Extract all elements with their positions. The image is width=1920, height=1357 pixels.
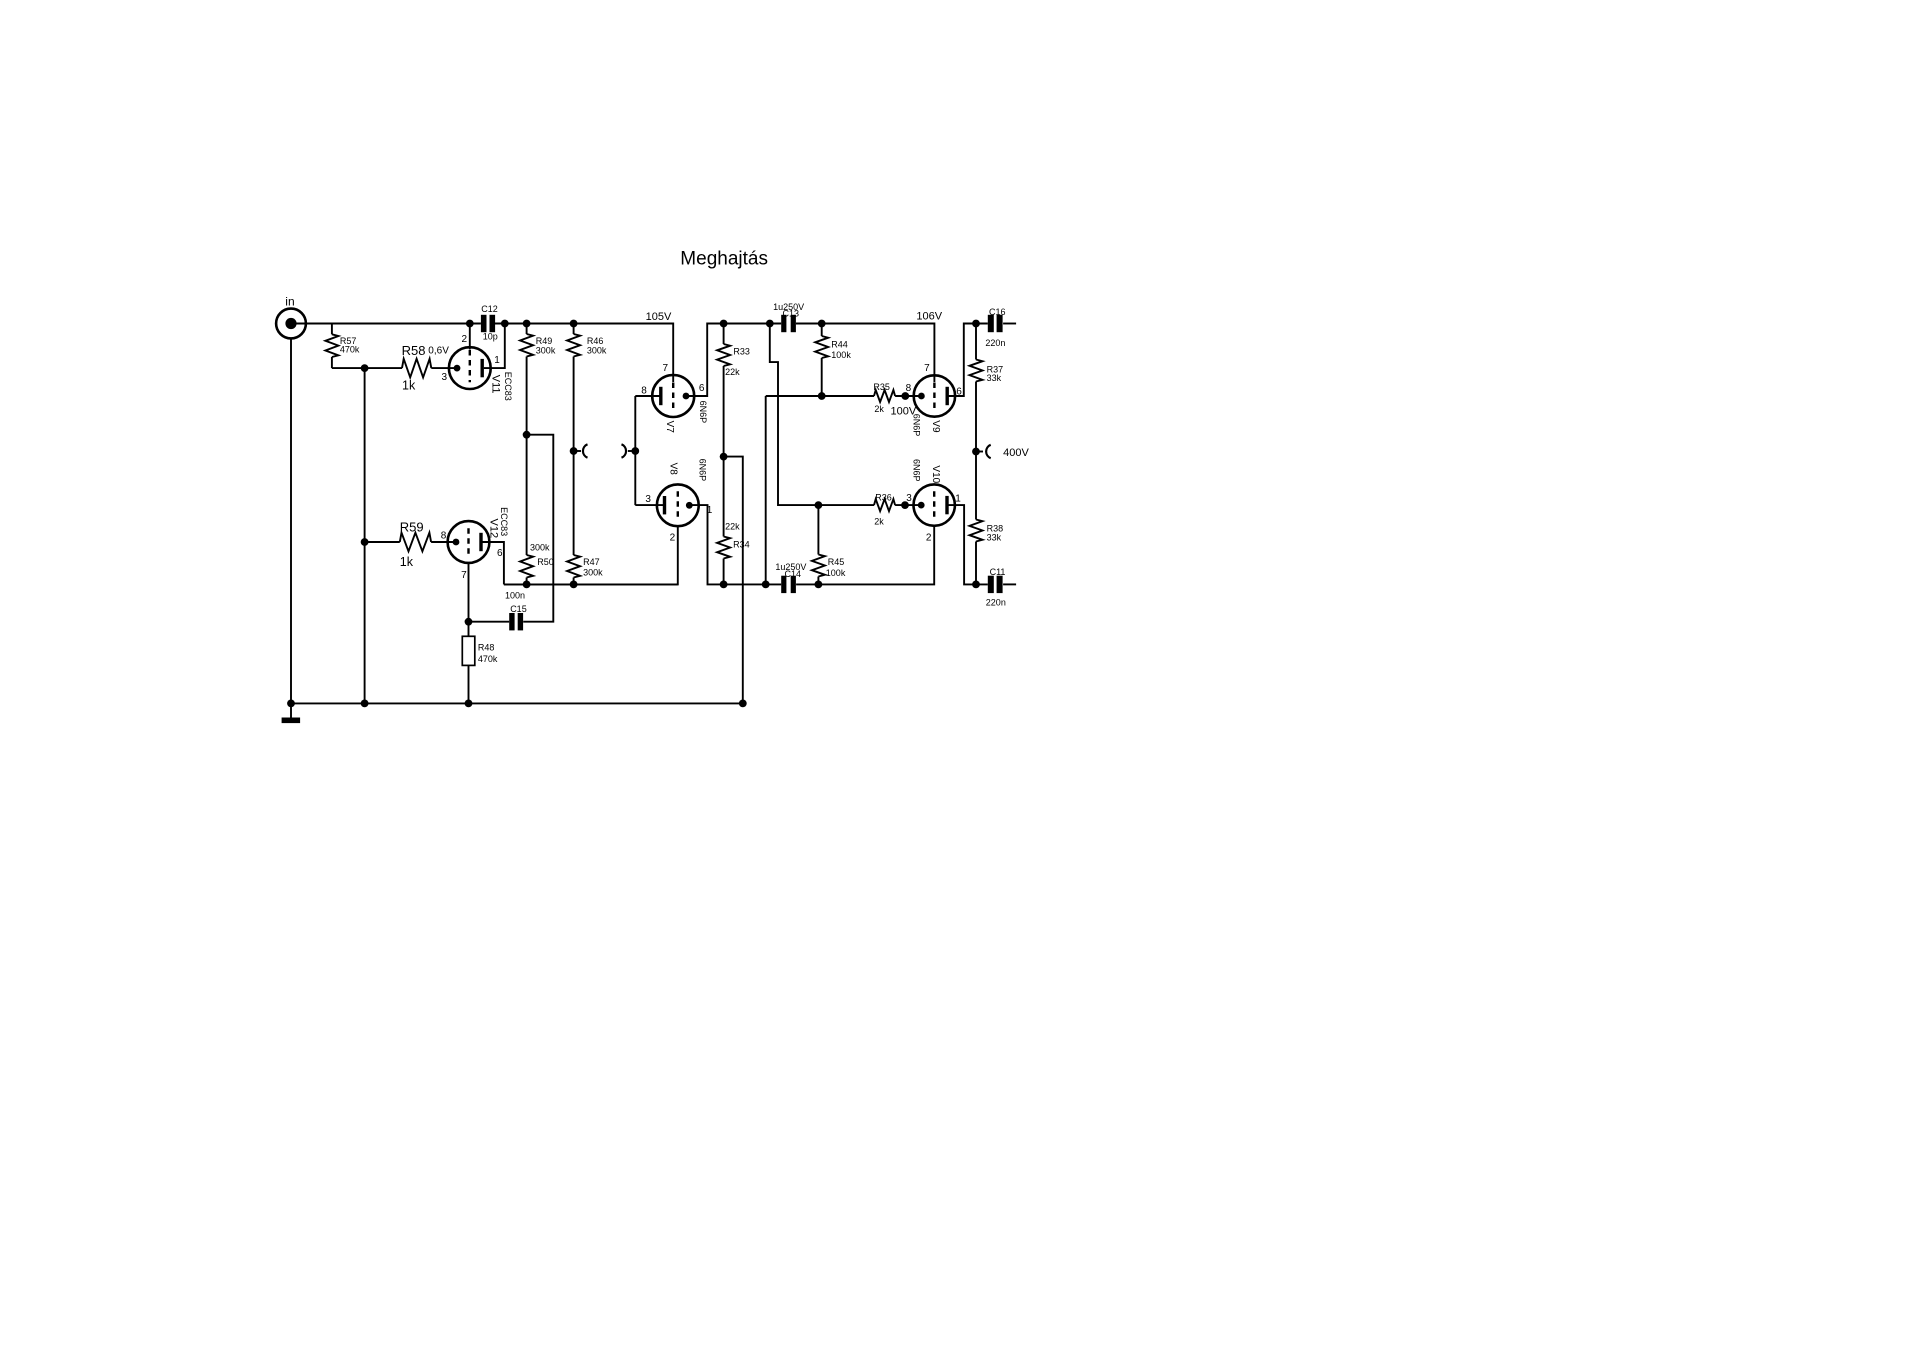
svg-text:3: 3	[442, 372, 448, 383]
wire R57 bottom to R58	[332, 367, 402, 369]
wire C12 right to 105V corner and V7 pin 7	[495, 324, 673, 383]
svg-text:100k: 100k	[831, 350, 851, 360]
svg-text:R45: R45	[828, 557, 845, 567]
svg-text:R35: R35	[873, 382, 890, 392]
svg-text:Meghajtás: Meghajtás	[680, 248, 768, 269]
capacitor C11 220n	[988, 576, 994, 593]
svg-text:6: 6	[956, 387, 962, 398]
svg-text:0,6V: 0,6V	[428, 346, 449, 357]
svg-text:300k: 300k	[587, 345, 607, 355]
wire C13 right to 106V corner and V9 pin 7	[796, 324, 935, 383]
svg-text:105V: 105V	[646, 311, 672, 323]
svg-text:8: 8	[906, 383, 912, 394]
node R47 bottom	[570, 581, 578, 589]
svg-text:6: 6	[497, 548, 503, 559]
wire C15 branch	[523, 435, 553, 622]
svg-text:C12: C12	[481, 304, 498, 314]
svg-text:1k: 1k	[400, 555, 414, 569]
node R46 top	[570, 320, 578, 328]
node net-A top (C13 left)	[766, 320, 774, 328]
node ground rail left	[287, 700, 295, 708]
wire input down to ground	[290, 338, 292, 703]
wire bottom left run	[504, 583, 678, 585]
heater tap node left	[570, 447, 578, 455]
triode V9 6N6P upper right	[914, 375, 955, 416]
svg-text:10p: 10p	[483, 332, 498, 342]
wire R37 to 400V node	[975, 382, 977, 452]
resistor R38 33k	[970, 520, 983, 542]
svg-text:22k: 22k	[725, 367, 740, 377]
resistor R49 300k	[526, 324, 528, 335]
wire V12 pin 7 down to R48	[468, 563, 470, 636]
node net-B bottom	[762, 581, 770, 589]
wire 400V to R38	[975, 452, 977, 520]
svg-text:2: 2	[462, 334, 468, 345]
resistor R46 300k	[573, 324, 575, 335]
resistor R37 33k	[975, 324, 977, 360]
node V10 pin 3	[901, 501, 909, 509]
wire V8 pin 2 down-left to bottom wire	[504, 526, 678, 584]
svg-text:100k: 100k	[826, 568, 846, 578]
node V9 pin 8	[901, 392, 909, 400]
svg-text:100n: 100n	[505, 591, 525, 601]
capacitor C16 220n	[988, 315, 994, 332]
heater tap node right	[631, 447, 639, 455]
wire input to C12	[291, 323, 481, 325]
svg-text:C16: C16	[989, 307, 1006, 317]
triode V12 ECC83	[448, 521, 490, 563]
svg-text:V10: V10	[930, 465, 941, 483]
wire V9 pin 6 riser to C16	[947, 324, 988, 397]
wire junction to ground rail	[724, 457, 743, 704]
node ground rail right corner	[739, 700, 747, 708]
wire junction to R59	[365, 541, 400, 543]
svg-text:3: 3	[906, 493, 912, 504]
wire C15 left to pin7 line	[469, 621, 510, 623]
wire R36 row	[818, 504, 874, 506]
node R59 junction	[361, 538, 369, 546]
resistor R34 22k	[723, 457, 725, 537]
wire R48 to ground rail	[468, 665, 470, 703]
node C11 left / R38 bottom	[972, 581, 980, 589]
svg-text:6N6P: 6N6P	[912, 459, 922, 482]
resistor R44 100k	[821, 324, 823, 337]
node R49 top	[523, 320, 531, 328]
triode V8 6N6P lower	[657, 484, 699, 526]
svg-text:C15: C15	[510, 604, 527, 614]
wire V10 pin 1 down to C11	[947, 505, 988, 584]
svg-text:6N6P: 6N6P	[698, 401, 708, 424]
wire V8 pin 3	[635, 504, 664, 506]
svg-text:V11: V11	[489, 375, 501, 394]
wire R58 to V11 pin 3	[431, 367, 457, 369]
svg-text:2k: 2k	[874, 404, 884, 414]
node C12 right	[501, 320, 509, 328]
wire junction down to R59 and ground	[364, 368, 366, 703]
node R50 bottom	[523, 581, 531, 589]
svg-text:106V: 106V	[916, 311, 942, 323]
svg-text:R50: R50	[537, 557, 554, 567]
wire V7 pin 6 riser	[686, 324, 781, 397]
svg-text:7: 7	[924, 363, 930, 374]
svg-text:2: 2	[670, 533, 676, 544]
resistor R45 100k	[817, 505, 819, 554]
resistor R50 300k	[520, 555, 533, 578]
heater arc symbol 400V	[976, 451, 983, 453]
wire V7 pin 8	[635, 395, 661, 397]
node 400V tap	[972, 448, 980, 456]
resistor R36 2k	[874, 499, 895, 511]
capacitor C13 1u250V	[781, 315, 786, 332]
resistor R57 470k	[331, 324, 333, 335]
svg-text:R48: R48	[478, 643, 495, 653]
wire net-B R35 row	[765, 396, 767, 584]
wire C14 right to V10 pin 2	[796, 526, 934, 584]
resistor R48 470k box	[462, 636, 475, 665]
svg-text:8: 8	[441, 530, 447, 541]
wire V7 pin8 down to V8 pin3	[634, 396, 636, 505]
svg-text:470k: 470k	[340, 345, 360, 355]
svg-text:ECC83: ECC83	[503, 372, 513, 401]
svg-text:33k: 33k	[987, 533, 1002, 543]
svg-text:2: 2	[926, 533, 932, 544]
wire C11 right end	[1003, 583, 1016, 585]
svg-text:V9: V9	[930, 420, 941, 433]
svg-text:C14: C14	[785, 569, 802, 579]
heater arc symbol right	[628, 450, 635, 452]
wire V12 pin 6 down to bottom wire	[481, 542, 504, 584]
svg-text:1k: 1k	[402, 379, 416, 393]
svg-text:1: 1	[494, 355, 500, 366]
wire R33 to junction	[723, 366, 725, 457]
wire junction down to R50	[526, 435, 528, 555]
svg-text:3: 3	[645, 494, 651, 505]
svg-text:220n: 220n	[985, 338, 1005, 348]
svg-text:1: 1	[955, 494, 961, 505]
svg-text:in: in	[285, 295, 294, 309]
svg-text:V7: V7	[664, 421, 675, 434]
capacitor C12 10p	[481, 315, 487, 332]
triode V7 6N6P upper	[652, 375, 694, 417]
svg-text:V12: V12	[487, 519, 499, 539]
svg-text:R34: R34	[733, 540, 750, 550]
svg-text:7: 7	[461, 570, 467, 581]
node R49/R50/C15 junction	[523, 431, 531, 439]
svg-text:R36: R36	[875, 492, 892, 502]
svg-text:ECC83: ECC83	[499, 507, 509, 536]
svg-text:C13: C13	[783, 309, 800, 319]
svg-text:R33: R33	[733, 347, 750, 357]
svg-text:R47: R47	[583, 557, 600, 567]
ground rail wire	[291, 702, 743, 704]
svg-text:C11: C11	[990, 567, 1006, 577]
node ground rail at R48	[465, 700, 473, 708]
svg-text:33k: 33k	[987, 373, 1002, 383]
wire net-A drop with jog to R36 row	[770, 324, 819, 506]
svg-text:6N6P: 6N6P	[912, 414, 922, 437]
triode V10 6N6P lower right	[914, 484, 955, 525]
node R33 top	[720, 320, 728, 328]
svg-text:1: 1	[707, 505, 713, 516]
resistor R59 1k	[400, 533, 431, 552]
wire R36 to V10 pin 3	[895, 504, 921, 506]
node R45 top	[815, 501, 823, 509]
wire V11 pin 1 to top	[484, 324, 505, 369]
node C12 left	[466, 320, 474, 328]
svg-text:6: 6	[699, 383, 705, 394]
wire R49 to junction	[526, 357, 528, 435]
svg-text:300k: 300k	[536, 345, 556, 355]
triode V11 ECC83	[449, 347, 491, 389]
node R33/R34 junction	[720, 453, 728, 461]
node C16 left / R37 top	[972, 320, 980, 328]
wire R59 to V12 pin 8	[431, 541, 456, 543]
resistor R33 22k	[723, 324, 725, 345]
resistor R35 2k	[874, 390, 895, 402]
svg-text:R58: R58	[402, 343, 426, 358]
resistor R47 300k	[567, 555, 580, 578]
svg-text:7: 7	[663, 363, 669, 374]
capacitor C14 1u250V	[781, 576, 786, 593]
wire R46 to R47	[573, 357, 575, 556]
heater arc symbol left	[574, 450, 581, 452]
node C15/pin7 junction	[465, 618, 473, 626]
svg-text:6N6P: 6N6P	[697, 459, 707, 482]
node C13 right / R44 top	[818, 320, 826, 328]
svg-text:2k: 2k	[874, 517, 884, 527]
wire V8 pin 1 down to bottom wire	[689, 505, 781, 584]
svg-text:300k: 300k	[530, 543, 550, 553]
svg-text:R44: R44	[831, 340, 848, 350]
svg-text:400V: 400V	[1003, 447, 1029, 459]
svg-text:22k: 22k	[725, 522, 740, 532]
capacitor C15 100n	[509, 613, 514, 630]
node R44 bottom on R35 row	[818, 392, 826, 400]
node junction R57/R58/vertical	[361, 364, 369, 372]
wire R35 to V9 pin 8	[895, 395, 921, 397]
node ground rail at J1	[361, 700, 369, 708]
svg-text:8: 8	[641, 385, 647, 396]
svg-text:R59: R59	[400, 520, 424, 535]
svg-text:470k: 470k	[478, 654, 498, 664]
wire C16 right end	[1003, 323, 1016, 325]
svg-text:220n: 220n	[986, 598, 1006, 608]
node R34 bottom	[720, 581, 728, 589]
resistor R58 1k	[402, 359, 431, 378]
svg-text:300k: 300k	[583, 568, 603, 578]
svg-text:V8: V8	[668, 463, 679, 476]
ground symbol	[290, 703, 292, 717]
node R45 bottom	[815, 581, 823, 589]
input connector "in"	[276, 309, 306, 339]
